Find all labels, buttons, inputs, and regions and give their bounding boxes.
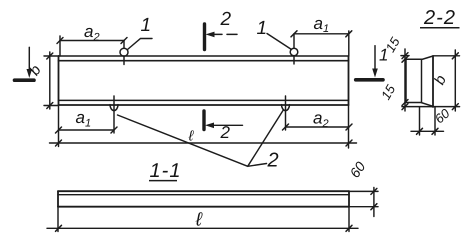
svg-text:a2: a2 xyxy=(313,109,329,131)
section 2-2 dimension 60 bottom xyxy=(411,107,444,135)
section 2-2 top edge xyxy=(406,56,433,59)
lifting loop 1 right (circle on top edge) xyxy=(290,34,298,64)
section cut mark 1 right xyxy=(356,46,383,80)
dimension a2 top-left xyxy=(57,36,127,56)
elevation 1-1 inner line xyxy=(58,194,349,196)
dimension a1 top-right xyxy=(291,31,352,56)
svg-text:ℓ: ℓ xyxy=(195,210,203,231)
leader for label 1 left xyxy=(128,39,153,50)
dimension a2 bottom-right xyxy=(283,105,353,148)
section cut mark 2 bottom xyxy=(204,111,243,130)
leader for label 1 right xyxy=(267,34,292,50)
lifting loop 2 right (loop at bottom edge) xyxy=(282,96,290,130)
svg-text:a2: a2 xyxy=(84,22,100,44)
dimension a1 bottom-left xyxy=(56,105,118,147)
section 2-2 left face edge xyxy=(405,59,407,102)
elevation 1-1 left edge xyxy=(57,191,59,207)
svg-text:1: 1 xyxy=(257,18,268,39)
section 2-2 right face edge xyxy=(432,56,434,107)
svg-text:60: 60 xyxy=(346,158,368,180)
section 2-2 inner taper line xyxy=(421,60,423,102)
section 2-2 dimension 15/15 line left xyxy=(402,49,408,111)
beam plan left edge xyxy=(58,56,60,105)
section 2-2 bottom line xyxy=(402,106,460,108)
elevation 1-1 bottom edge xyxy=(58,206,349,208)
section cut mark 1 left xyxy=(15,47,35,80)
svg-text:a1: a1 xyxy=(314,14,330,35)
section 2-2 bottom inner edge xyxy=(406,103,433,107)
lifting loop 2 left (loop at bottom edge) xyxy=(110,96,118,133)
svg-text:2: 2 xyxy=(267,150,279,172)
leader for label 2 bottom xyxy=(118,111,284,167)
beam plan inner top line xyxy=(59,60,349,62)
svg-text:2-2: 2-2 xyxy=(423,7,456,29)
section 2-2 dimension b line right xyxy=(452,50,458,111)
svg-text:ℓ: ℓ xyxy=(188,128,195,144)
elevation 1-1 right edge xyxy=(348,191,350,207)
beam plan right edge xyxy=(348,56,350,105)
svg-text:2: 2 xyxy=(220,9,232,30)
svg-text:2: 2 xyxy=(220,123,231,142)
beam plan top edge xyxy=(59,55,349,57)
svg-text:15: 15 xyxy=(378,82,399,103)
elevation 1-1 top edge xyxy=(58,190,349,192)
elevation 1-1 dimension l xyxy=(47,207,358,232)
title 1-1 xyxy=(149,160,181,182)
svg-text:a1: a1 xyxy=(76,108,92,130)
lifting loop 1 left (circle on top edge) xyxy=(120,41,128,65)
section cut mark 2 top xyxy=(205,24,238,50)
section 2-2 top extension line xyxy=(401,55,460,57)
elevation 1-1 dimension 60 right xyxy=(349,188,378,217)
dimension b left xyxy=(44,52,59,109)
svg-text:1: 1 xyxy=(141,15,152,36)
dimension l plan overall xyxy=(50,140,357,146)
beam plan bottom edge xyxy=(59,104,349,106)
svg-text:1-1: 1-1 xyxy=(150,160,182,182)
title 2-2 xyxy=(420,7,460,29)
beam plan inner bottom line xyxy=(59,99,349,101)
